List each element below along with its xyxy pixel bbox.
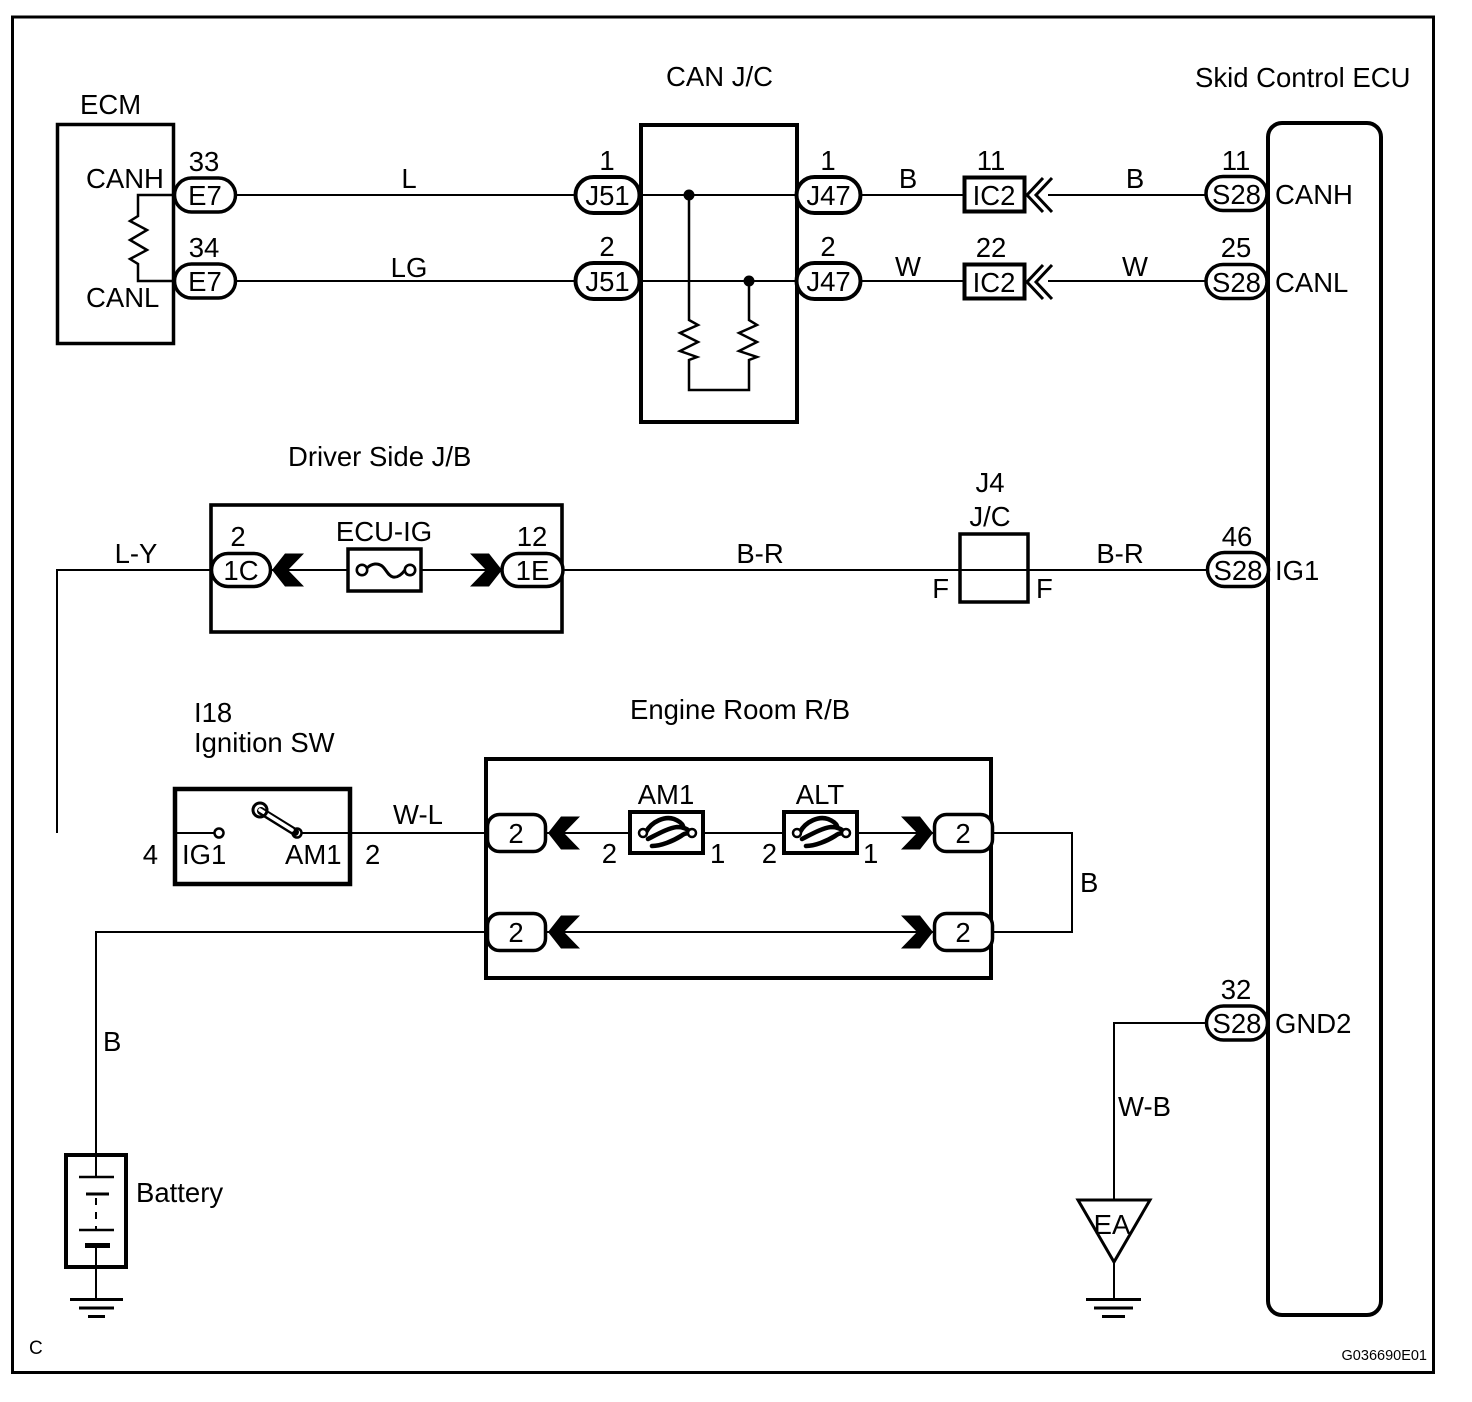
connector E7 pin 33 [175, 178, 236, 212]
connector 2 (row2 left) [488, 914, 546, 951]
svg-text:IG1: IG1 [1275, 555, 1319, 586]
svg-text:2: 2 [820, 231, 835, 262]
svg-text:S28: S28 [1214, 555, 1263, 586]
wire B (J47-1 to IC2) [860, 194, 964, 196]
svg-text:B: B [103, 1026, 121, 1057]
svg-text:J47: J47 [806, 266, 850, 297]
connector J51 pin 1 [576, 177, 640, 213]
svg-text:AM1: AM1 [638, 779, 695, 810]
shield chevrons row 2 [1027, 265, 1043, 299]
svg-text:34: 34 [189, 232, 220, 263]
svg-text:S28: S28 [1212, 179, 1261, 210]
svg-text:1: 1 [863, 838, 878, 869]
connector 2 (row1 left) [488, 815, 546, 852]
switch contact IG1 [215, 829, 224, 838]
fusible link AM1 element [646, 818, 690, 846]
shield chevrons row 1 [1027, 178, 1043, 212]
wire through J4 [960, 569, 1028, 571]
svg-text:2: 2 [508, 917, 523, 948]
svg-text:2: 2 [599, 231, 614, 262]
svg-text:2: 2 [602, 838, 617, 869]
svg-text:1: 1 [599, 145, 614, 176]
noise filter IC2 (row 1) [965, 178, 1025, 212]
svg-text:EA: EA [1094, 1209, 1131, 1240]
fuse element [367, 564, 405, 577]
wire W (J47-2 to IC2) [860, 280, 964, 282]
svg-text:J47: J47 [806, 180, 850, 211]
svg-text:IC2: IC2 [973, 180, 1016, 211]
ECM box [58, 125, 174, 344]
svg-text:Skid Control ECU: Skid Control ECU [1195, 62, 1411, 93]
connector E7 pin 34 [175, 264, 236, 298]
svg-text:33: 33 [189, 146, 220, 177]
arrow chevron left after 1C [272, 554, 304, 587]
svg-text:2: 2 [508, 818, 523, 849]
svg-text:ECM: ECM [80, 89, 141, 120]
connector 2 (row1 right) [935, 815, 993, 852]
svg-text:C: C [29, 1338, 43, 1359]
CAN J/C box [641, 125, 797, 422]
switch lever [261, 811, 295, 832]
svg-text:22: 22 [976, 232, 1007, 263]
arrow chevron right before 1E [470, 554, 502, 587]
svg-text:E7: E7 [188, 180, 222, 211]
svg-text:J51: J51 [585, 266, 629, 297]
svg-text:GND2: GND2 [1275, 1008, 1351, 1039]
svg-text:I18: I18 [194, 697, 232, 728]
wire B (IC2 to S28-11) [1048, 194, 1208, 196]
connector S28 pin 25 [1206, 265, 1267, 299]
wire into switch [173, 832, 214, 834]
svg-text:12: 12 [517, 521, 548, 552]
ground under battery [70, 1298, 123, 1301]
svg-text:CANL: CANL [86, 282, 159, 313]
svg-text:S28: S28 [1213, 1008, 1262, 1039]
wire W-L (switch to Engine Room R/B) [301, 832, 489, 834]
wire inside J/B row [270, 569, 504, 571]
connector S28 pin 32 [1207, 1006, 1268, 1040]
svg-text:B-R: B-R [1096, 538, 1143, 569]
connector S28 pin 11 [1206, 177, 1267, 211]
arrow chevron right row1 [901, 817, 933, 850]
wire EA to ground [1113, 1262, 1115, 1299]
wire B-R (J4 to S28-46) [1028, 569, 1209, 571]
fusible link AM1 box [630, 812, 703, 853]
connector J51 pin 2 [576, 263, 640, 299]
junction J4 J/C box [960, 534, 1028, 602]
switch contact AM1 [293, 829, 302, 838]
junction node dot 2 [744, 276, 755, 287]
svg-text:W: W [895, 251, 921, 282]
svg-text:Driver Side J/B: Driver Side J/B [288, 441, 471, 472]
wire across CAN J/C row 2 [639, 280, 799, 282]
fuse ECU-IG box [348, 549, 421, 591]
svg-text:J51: J51 [585, 180, 629, 211]
svg-text:1: 1 [820, 145, 835, 176]
battery BAT box [66, 1155, 126, 1267]
resistor inside ECM [130, 195, 172, 281]
wire B-R (1E to J4) [563, 569, 960, 571]
svg-text:1C: 1C [223, 555, 258, 586]
Skid Control ECU box [1268, 123, 1381, 1315]
connector 1C pin 2 [212, 554, 271, 587]
svg-text:E7: E7 [188, 266, 222, 297]
svg-text:S28: S28 [1212, 267, 1261, 298]
svg-text:F: F [1036, 573, 1053, 604]
svg-text:Ignition SW: Ignition SW [194, 727, 335, 758]
wire L-Y (corner to 1C) [57, 570, 213, 833]
svg-text:25: 25 [1221, 232, 1252, 263]
svg-text:B: B [1126, 163, 1144, 194]
connector J47 pin 2 [797, 263, 861, 299]
svg-text:11: 11 [977, 145, 1006, 176]
svg-text:F: F [932, 573, 949, 604]
svg-text:Battery: Battery [136, 1177, 223, 1208]
wire L (E7-33 to J51-1) [235, 194, 578, 196]
svg-text:J/C: J/C [969, 501, 1010, 532]
svg-text:Engine Room R/B: Engine Room R/B [630, 694, 850, 725]
svg-text:W-B: W-B [1118, 1091, 1171, 1122]
svg-text:CANH: CANH [1275, 179, 1353, 210]
svg-text:46: 46 [1222, 521, 1253, 552]
arrow chevron left row1 [548, 817, 580, 850]
wire LG (E7-34 to J51-2) [235, 280, 578, 282]
svg-text:32: 32 [1221, 974, 1252, 1005]
fusible link ALT box [784, 812, 857, 853]
svg-text:G036690E01: G036690E01 [1342, 1348, 1427, 1364]
svg-text:2: 2 [955, 917, 970, 948]
svg-text:W: W [1122, 251, 1148, 282]
connector J47 pin 1 [797, 177, 861, 213]
arrow chevron left row2 [548, 916, 580, 949]
ground under EA [1086, 1298, 1141, 1301]
ground point EA triangle [1078, 1200, 1150, 1262]
battery internals [95, 1155, 97, 1177]
svg-text:W-L: W-L [393, 799, 443, 830]
junction node dot 1 [684, 190, 695, 201]
wire row1 inside R/B [547, 832, 935, 834]
svg-text:2: 2 [762, 838, 777, 869]
wire row2 inside R/B [547, 931, 935, 933]
svg-text:CAN J/C: CAN J/C [666, 61, 773, 92]
terminating resistor 1 in CAN J/C [680, 195, 757, 390]
svg-text:AM1: AM1 [285, 839, 342, 870]
fusible link ALT element [800, 818, 844, 846]
svg-text:IG1: IG1 [182, 839, 226, 870]
svg-text:2: 2 [955, 818, 970, 849]
wire W-B (S28-32 to EA) [1114, 1023, 1206, 1200]
svg-text:J4: J4 [975, 467, 1004, 498]
svg-text:L-Y: L-Y [115, 538, 158, 569]
svg-text:IC2: IC2 [973, 267, 1016, 298]
svg-text:LG: LG [391, 252, 428, 283]
connector 2 (row2 right) [935, 914, 993, 951]
svg-text:1: 1 [710, 838, 725, 869]
svg-text:ALT: ALT [796, 779, 845, 810]
connector S28 pin 46 [1208, 553, 1269, 587]
noise filter IC2 (row 2) [965, 265, 1025, 299]
wire B loop right of R/B [993, 833, 1072, 932]
svg-text:B: B [1080, 867, 1098, 898]
wire across CAN J/C row 1 [639, 194, 799, 196]
svg-text:1E: 1E [516, 555, 550, 586]
Ignition SW box [175, 789, 350, 884]
Engine Room R/B box [486, 759, 991, 978]
svg-text:L: L [401, 163, 416, 194]
svg-text:ECU-IG: ECU-IG [336, 516, 432, 547]
wire battery to R/B row2 [96, 932, 489, 1155]
wire W (IC2 to S28-25) [1048, 280, 1208, 282]
svg-text:CANH: CANH [86, 163, 164, 194]
connector 1E pin 12 [502, 554, 563, 587]
svg-text:11: 11 [1222, 145, 1251, 176]
svg-text:2: 2 [365, 839, 380, 870]
svg-text:B-R: B-R [736, 538, 783, 569]
svg-text:4: 4 [143, 839, 158, 870]
svg-text:2: 2 [230, 521, 245, 552]
Driver Side J/B box [211, 505, 562, 632]
svg-text:B: B [899, 163, 917, 194]
svg-text:CANL: CANL [1275, 267, 1348, 298]
arrow chevron right row2 [901, 916, 933, 949]
